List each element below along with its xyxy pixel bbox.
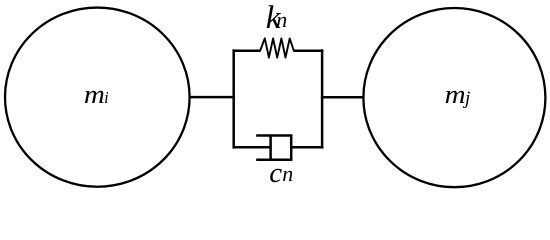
wire right vertical of parallel branch bbox=[321, 49, 324, 148]
svg-text:c: c bbox=[269, 157, 282, 189]
spring k_n left lead bbox=[234, 49, 261, 52]
damper cylinder (open left) bbox=[256, 136, 291, 160]
mass m_j circle bbox=[363, 8, 545, 187]
spring k_n zigzag bbox=[260, 38, 294, 57]
spring k_n right lead bbox=[294, 49, 324, 52]
svg-text:i: i bbox=[104, 88, 109, 107]
damper piston plate bbox=[269, 134, 272, 160]
label k_n bbox=[266, 0, 288, 36]
label m_i bbox=[84, 80, 109, 109]
damper right rod bbox=[291, 146, 323, 149]
svg-text:m: m bbox=[445, 80, 466, 109]
damper left rod bbox=[234, 146, 271, 149]
label c_n bbox=[269, 157, 293, 189]
svg-text:m: m bbox=[84, 80, 105, 109]
mass m_i circle bbox=[5, 8, 190, 187]
label m_j bbox=[445, 80, 471, 109]
svg-text:n: n bbox=[282, 161, 293, 186]
wire left vertical of parallel branch bbox=[232, 49, 235, 148]
svg-text:n: n bbox=[276, 7, 287, 32]
wire right connector bbox=[321, 96, 364, 99]
wire left connector bbox=[189, 96, 235, 99]
